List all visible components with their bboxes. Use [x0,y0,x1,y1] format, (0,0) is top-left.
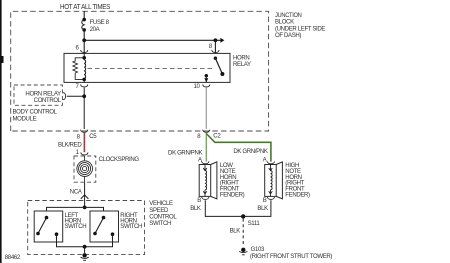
connector high horn B [267,197,274,199]
svg-text:FENDER): FENDER) [285,192,310,198]
wire BLK to ground dashed [242,219,244,247]
high horn flare [276,162,282,199]
right horn switch box [90,211,119,242]
low horn coil [203,165,207,197]
svg-text:OF DASH): OF DASH) [275,33,301,39]
svg-text:(RIGHT FRONT STRUT TOWER): (RIGHT FRONT STRUT TOWER) [250,254,332,260]
svg-text:JUNCTION: JUNCTION [275,13,302,19]
svg-text:VEHICLE: VEHICLE [149,201,173,207]
label JUNCTION BLOCK (UNDER LEFT SIDE OF DASH) [275,13,325,39]
wire DK GRN/PNK branch to high horn [206,134,271,162]
wire clockspring to switch box [84,182,86,207]
svg-text:RELAY: RELAY [233,62,251,68]
wire control to pin7 line [67,95,84,97]
wire pin8 drop [214,40,216,53]
svg-text:CONTROL: CONTROL [34,98,62,104]
connector clockspring pin1 [81,152,88,155]
vehicle speed control switch dashed box [28,201,145,255]
svg-text:BLK: BLK [230,228,241,234]
svg-text:20A: 20A [90,27,101,33]
svg-text:MODULE: MODULE [13,116,37,122]
connector high horn A [267,161,274,163]
connector pin 6 [81,50,88,53]
svg-text:B: B [197,198,201,204]
svg-text:HORN RELAY: HORN RELAY [25,91,61,97]
node pin7/control junction [82,94,86,98]
connector low horn B [202,197,209,199]
low note horn box [199,165,211,197]
connector C2 [203,130,210,133]
horn relay box [64,53,230,82]
page edge mark [0,0,2,263]
svg-text:SWITCH: SWITCH [120,224,142,230]
label VEHICLE SPEED CONTROL SWITCH [149,201,177,227]
svg-text:BLK/RED: BLK/RED [58,143,82,149]
svg-text:C5: C5 [89,134,97,140]
svg-text:BLK: BLK [190,206,201,212]
relay coil branch: resistor [73,58,84,80]
svg-text:BODY CONTROL: BODY CONTROL [13,110,58,116]
wire high horn ground [243,200,271,216]
ground G103 [241,248,245,252]
svg-text:CLOCKSPRING: CLOCKSPRING [99,157,140,163]
svg-text:(UNDER LEFT SIDE: (UNDER LEFT SIDE [275,27,325,33]
svg-text:C2: C2 [213,133,221,139]
relay switch blade [214,57,217,60]
svg-text:SWITCH: SWITCH [65,224,87,230]
svg-text:SPEED: SPEED [149,208,169,214]
wire pin10 down to C2 (gray) [205,88,207,129]
wire hot feed vertical [83,11,85,19]
svg-text:CONTROL: CONTROL [149,214,177,220]
label HIGH NOTE HORN (RIGHT FRONT FENDER) [285,163,310,198]
wire DK GRN/PNK low horn [205,133,207,162]
junction block dashed border [11,11,269,131]
node ground junction [83,245,87,249]
node switch feed junction [83,206,87,210]
svg-text:DK GRN/PNK: DK GRN/PNK [233,149,267,155]
ground symbol switch [84,247,86,253]
svg-text:SWITCH: SWITCH [149,221,171,227]
svg-text:88462: 88462 [5,255,21,261]
svg-text:DK GRN/PNK: DK GRN/PNK [168,150,202,156]
svg-text:10: 10 [194,84,201,90]
svg-text:B: B [263,198,267,204]
wire low horn ground [205,200,243,216]
connector pin 7 [81,84,88,87]
svg-text:BLK: BLK [257,206,268,212]
low horn flare [211,162,217,199]
connector C5 [81,130,88,133]
node fuse output junction [82,38,86,42]
wire switch grounds [57,242,113,247]
connector horn relay control output [63,93,66,100]
wire fuse to node [83,30,85,53]
connector pin 8 [212,50,219,53]
wire BLK/RED to clockspring [83,133,85,152]
connector arrow into switch [81,195,89,199]
high horn coil [269,165,273,197]
left horn switch contacts [45,216,49,220]
left horn switch box [34,211,63,242]
clockspring dashed box [74,156,96,182]
wire pin7 down to C5 [83,88,85,129]
svg-text:FENDER): FENDER) [220,192,245,198]
svg-text:HORN: HORN [233,55,249,61]
right horn switch contacts [102,216,106,220]
relay fixed contact pin 10 [205,74,208,77]
svg-text:G103: G103 [251,247,265,253]
node pin8 tap [214,38,218,42]
fuse F8 20A [82,18,86,22]
relay coil [84,53,85,82]
horn relay control dashed box [14,85,62,105]
relay actuator dashed link [88,68,215,70]
connector pin 10 [203,84,210,87]
svg-text:NCA: NCA [70,189,83,195]
splice S111 [241,214,245,218]
svg-text:FUSE 8: FUSE 8 [90,20,110,26]
high note horn box [265,165,277,197]
connector low horn A [202,161,209,163]
label LOW NOTE HORN (RIGHT FRONT FENDER) [220,163,245,198]
svg-text:HOT AT ALL TIMES: HOT AT ALL TIMES [60,4,111,11]
wire feed branch to right with arrow [84,39,220,41]
clockspring spiral [77,156,93,182]
svg-text:S111: S111 [248,221,261,227]
wire feed to both switches [47,207,104,211]
svg-text:BLOCK: BLOCK [275,20,294,26]
